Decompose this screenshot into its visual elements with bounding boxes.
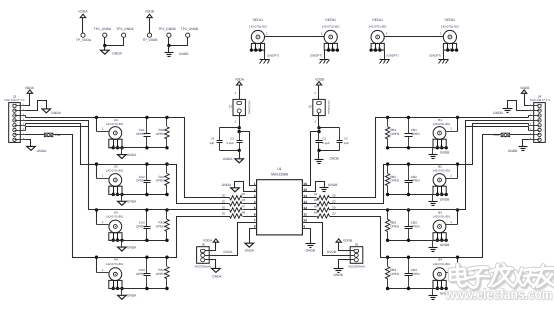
node junction xyxy=(386,162,389,165)
resistor R1 20 ohm xyxy=(309,197,317,199)
node junction xyxy=(436,146,439,149)
resistor RB2 xyxy=(387,165,389,174)
capacitor C4 xyxy=(219,128,221,141)
svg-text:GNDA: GNDA xyxy=(37,149,47,153)
wire J4 pin4 net xyxy=(528,120,530,122)
svg-text:VDDB: VDDB xyxy=(145,10,155,14)
pin 1 of B1 xyxy=(446,131,458,133)
wire xyxy=(529,115,540,117)
svg-text:20: 20 xyxy=(222,199,226,203)
node junction xyxy=(386,256,389,259)
wire xyxy=(432,289,434,296)
svg-text:20: 20 xyxy=(332,193,336,197)
wire J6 pin 3 xyxy=(339,260,355,269)
svg-text:J6: J6 xyxy=(355,243,359,247)
node junction xyxy=(386,146,389,149)
node junction xyxy=(167,44,170,47)
resistor R6 20 ohm xyxy=(230,202,242,206)
wire row A1 signal xyxy=(97,117,167,119)
svg-text:(GNDPT): (GNDPT) xyxy=(387,54,399,58)
svg-text:142-0701-801: 142-0701-801 xyxy=(106,262,124,266)
wire xyxy=(82,18,84,34)
node junction xyxy=(112,287,115,290)
svg-text:OPEN: OPEN xyxy=(390,132,399,136)
wire xyxy=(529,134,540,136)
wire xyxy=(529,139,540,141)
svg-text:OPEN: OPEN xyxy=(411,132,420,136)
ground GNDA row A4 xyxy=(118,295,127,299)
svg-text:11: 11 xyxy=(303,212,307,216)
wire bundle line 4 xyxy=(26,126,89,128)
node junction xyxy=(451,48,454,51)
wire xyxy=(239,151,241,159)
wire xyxy=(15,139,26,141)
wire xyxy=(168,46,170,53)
wire U1 pin 2 to ground xyxy=(235,182,251,192)
pin 1 of J4 xyxy=(538,104,541,107)
wire xyxy=(121,148,123,155)
wire xyxy=(168,38,170,46)
resistor R8 20 ohm xyxy=(230,214,242,218)
wire bundle line 1 to row A1 xyxy=(26,117,185,119)
svg-text:GNDA: GNDA xyxy=(212,274,222,278)
wire xyxy=(169,38,188,46)
wire xyxy=(96,165,98,179)
node junction xyxy=(259,48,262,51)
node junction xyxy=(116,146,119,149)
wire row B4 to U1 pin 11 xyxy=(330,217,388,258)
pin 1 of B4 xyxy=(446,272,458,274)
pin 8 of J4 xyxy=(538,138,541,141)
node junction xyxy=(456,256,459,259)
wire row A3 to U1 pin 5 xyxy=(167,209,230,211)
svg-text:6: 6 xyxy=(254,212,256,216)
wire xyxy=(220,127,240,129)
wire xyxy=(239,85,241,102)
svg-text:GNDA: GNDA xyxy=(222,183,232,187)
ground pins of A2 xyxy=(109,186,122,194)
svg-text:(GNDPT): (GNDPT) xyxy=(267,54,279,58)
svg-text:TP_VDDB: TP_VDDB xyxy=(142,38,158,42)
ground pins of REFB2 xyxy=(443,43,456,50)
wire xyxy=(121,289,123,296)
wire bundle line 1 to row B1 xyxy=(376,117,529,119)
node junction xyxy=(407,208,410,211)
wire xyxy=(529,130,540,132)
wire bundle line 2 xyxy=(26,121,97,210)
svg-text:OPEN: OPEN xyxy=(156,225,165,229)
pin 8 of J3 xyxy=(13,138,16,141)
svg-text:J1: J1 xyxy=(229,104,233,108)
wire row B3 ground bus xyxy=(388,240,447,242)
test point TP_VDDA xyxy=(81,33,85,37)
wire xyxy=(529,125,540,127)
node junction xyxy=(386,287,389,290)
wire xyxy=(457,258,459,273)
ground GNDB at U1 pin 15 xyxy=(320,187,329,189)
svg-text:20: 20 xyxy=(222,193,226,197)
svg-text:0.1µF: 0.1µF xyxy=(227,141,235,145)
svg-text:VDDB: VDDB xyxy=(343,238,352,242)
svg-text:OPEN: OPEN xyxy=(136,179,145,183)
pin 12 of U1 xyxy=(303,209,309,211)
ground GNDB at J6 pin 3 xyxy=(334,268,344,270)
svg-text:REFB1: REFB1 xyxy=(325,18,336,22)
svg-text:PEC02SAAN: PEC02SAAN xyxy=(247,100,250,114)
pin 1 of REFB2 xyxy=(438,36,444,38)
node junction xyxy=(165,146,168,149)
svg-text:GNDB: GNDB xyxy=(493,111,503,115)
wire J5 pin 3 xyxy=(205,260,216,269)
wire J6 pin 1 xyxy=(339,243,355,251)
ground GNDB below C2 xyxy=(315,159,324,161)
wire row A1 to U1 pin 3 xyxy=(167,118,230,198)
node junction xyxy=(95,208,98,211)
svg-text:1: 1 xyxy=(266,31,268,35)
svg-text:PEC03SAAN: PEC03SAAN xyxy=(348,265,365,269)
node junction xyxy=(386,208,389,211)
wire J3 pin7 via FB1 down to row A4 xyxy=(26,134,45,136)
wire xyxy=(457,118,459,132)
wire row A2 signal xyxy=(97,164,167,166)
wire J3 pin6 net xyxy=(25,127,27,131)
svg-text:R7: R7 xyxy=(242,204,246,208)
svg-text:OPEN: OPEN xyxy=(390,272,399,276)
wire xyxy=(324,51,326,60)
ground pins of A1 xyxy=(109,139,122,148)
pin 6 of J4 xyxy=(538,128,541,131)
node junction xyxy=(250,48,253,51)
wire J3 pin8 to ground xyxy=(26,140,31,147)
svg-text:20: 20 xyxy=(222,206,226,210)
node junction xyxy=(145,193,148,196)
node junction xyxy=(386,193,389,196)
ground GNDA row A3 xyxy=(118,247,127,251)
pin 3 of J4 xyxy=(538,114,541,117)
node junction xyxy=(165,208,168,211)
wire xyxy=(15,120,26,122)
svg-text:5: 5 xyxy=(254,206,256,210)
svg-text:OPEN: OPEN xyxy=(390,225,399,229)
svg-text:GNDB: GNDB xyxy=(440,197,449,201)
wire row B1 to U1 pin 14 xyxy=(330,118,388,198)
wire xyxy=(432,195,434,202)
pin 7 of J3 xyxy=(13,133,16,136)
node junction xyxy=(165,239,168,242)
svg-text:OPEN: OPEN xyxy=(156,272,165,276)
svg-text:0.1µF: 0.1µF xyxy=(322,141,330,145)
pin 2 of U1 xyxy=(251,191,257,193)
node junction xyxy=(456,162,459,165)
svg-text:20: 20 xyxy=(332,212,336,216)
wire row B3 signal xyxy=(388,209,458,211)
ground GNDB xyxy=(165,52,174,54)
svg-text:R8: R8 xyxy=(242,210,246,214)
wire bundle line 3 right xyxy=(458,124,529,165)
svg-text:GNDB: GNDB xyxy=(440,243,449,247)
pin 2 of J4 xyxy=(538,109,541,112)
resistor RA1 xyxy=(166,118,168,127)
wire xyxy=(15,115,26,117)
svg-text:142-0701-801: 142-0701-801 xyxy=(322,24,340,28)
svg-text:REFA2: REFA2 xyxy=(372,18,383,22)
svg-text:REFA1: REFA1 xyxy=(253,18,264,22)
capacitor C5 xyxy=(339,128,341,141)
node junction xyxy=(455,48,458,51)
node junction xyxy=(120,193,123,196)
svg-text:U1: U1 xyxy=(277,167,281,171)
node junction xyxy=(112,193,115,196)
ground GNDA xyxy=(101,50,110,54)
svg-text:VDDA: VDDA xyxy=(25,86,35,90)
svg-text:1µF: 1µF xyxy=(344,141,349,145)
svg-text:R3: R3 xyxy=(314,204,318,208)
resistor RB3 xyxy=(387,210,389,220)
wire J5 pin 1 xyxy=(205,243,216,251)
svg-text:GNDB: GNDB xyxy=(508,149,518,153)
ground GNDA at J5 pin 3 xyxy=(212,268,221,272)
chassis ground of REFB1 xyxy=(320,59,329,61)
wire xyxy=(104,46,106,51)
wire xyxy=(239,113,241,128)
node junction xyxy=(238,130,241,133)
wire row A4 ground bus xyxy=(109,288,167,290)
wire row B2 to U1 pin 13 xyxy=(330,165,388,204)
node junction xyxy=(145,162,148,165)
ferrite bead FB2 on J4 pin 7 xyxy=(501,133,510,137)
node junction xyxy=(145,208,148,211)
wire xyxy=(443,51,445,60)
node junction xyxy=(120,146,123,149)
wire J4 pin7 via FB2 down to row B4 xyxy=(510,134,529,136)
ground GNDA row A1 xyxy=(118,155,127,159)
wire xyxy=(121,195,123,202)
node junction xyxy=(145,239,148,242)
pin 1 of REFB1 xyxy=(319,36,325,38)
wire xyxy=(15,125,26,127)
pin 2 of J3 xyxy=(13,109,16,112)
wire row B4 ground bus xyxy=(388,288,447,290)
wire to U1 pin 1 xyxy=(240,132,251,186)
wire J3 pin2 jog xyxy=(26,101,47,111)
node junction xyxy=(116,287,119,290)
resistor RA3 xyxy=(166,210,168,220)
node junction xyxy=(407,287,410,290)
node junction xyxy=(112,146,115,149)
capacitor C2 xyxy=(318,132,320,141)
node junction xyxy=(440,239,443,242)
ground GNDB row B3 xyxy=(429,247,438,249)
resistor R5 20 ohm xyxy=(230,196,242,200)
svg-text:OPEN: OPEN xyxy=(136,132,145,136)
svg-text:(GNDPT): (GNDPT) xyxy=(429,54,441,58)
wire J4 pin3 net xyxy=(528,116,530,118)
pin 1 of A2 xyxy=(97,178,109,180)
node junction xyxy=(336,48,339,51)
ground GNDA at J3 pin 2 xyxy=(42,109,51,113)
svg-text:12: 12 xyxy=(303,206,307,210)
capacitor CA2 xyxy=(146,165,148,181)
wire xyxy=(432,241,434,248)
wire U1 pin 9 to ground xyxy=(309,229,311,244)
wire xyxy=(529,120,540,122)
svg-text:VDDB: VDDB xyxy=(520,86,530,90)
svg-text:1: 1 xyxy=(386,31,388,35)
node junction xyxy=(254,48,257,51)
svg-text:GNDB: GNDB xyxy=(306,248,315,252)
svg-text:OPEN: OPEN xyxy=(136,225,145,229)
wire row B4 signal xyxy=(388,257,458,259)
wire J4 pin5 net xyxy=(528,124,530,126)
svg-text:13: 13 xyxy=(303,200,307,204)
wire xyxy=(96,210,98,225)
capacitor C1 xyxy=(239,132,241,141)
node junction xyxy=(386,116,389,119)
svg-text:14: 14 xyxy=(303,194,307,198)
svg-text:VDDA: VDDA xyxy=(235,78,245,82)
chassis ground of REFA2 xyxy=(380,59,390,61)
svg-text:J3: J3 xyxy=(13,95,17,99)
svg-text:TP2_GNDB: TP2_GNDB xyxy=(181,27,199,31)
wire xyxy=(529,105,539,107)
chassis ground of REFB2 xyxy=(439,59,449,61)
svg-text:(GNDPT): (GNDPT) xyxy=(310,54,322,58)
pin 8 of U1 xyxy=(251,228,257,230)
ground GNDB row B4 xyxy=(429,295,438,297)
node junction xyxy=(369,48,372,51)
svg-text:142-0701-801: 142-0701-801 xyxy=(106,169,124,173)
node junction xyxy=(440,146,443,149)
pin 1 of U1 xyxy=(251,185,257,187)
ground pins of B4 xyxy=(433,280,446,288)
wire J4 pin1 to VDDB xyxy=(525,94,529,106)
pin 14 of U1 xyxy=(303,197,309,199)
node junction xyxy=(386,239,389,242)
wire REFA2 to REFB2 xyxy=(390,36,438,38)
node junction xyxy=(165,193,168,196)
svg-text:PEC03SAAN: PEC03SAAN xyxy=(195,265,212,269)
wire J5 pin 2 xyxy=(205,255,214,257)
svg-text:1: 1 xyxy=(254,182,256,186)
pin 13 of U1 xyxy=(303,203,309,205)
node junction xyxy=(445,239,448,242)
node junction xyxy=(407,193,410,196)
svg-text:J4: J4 xyxy=(538,95,542,99)
ground GNDB row B2 xyxy=(429,201,438,203)
svg-text:GNDA: GNDA xyxy=(223,157,233,161)
node junction xyxy=(165,162,168,165)
svg-text:TSW-108-07-T-S: TSW-108-07-T-S xyxy=(530,99,551,102)
node junction xyxy=(456,116,459,119)
wire row A3 signal xyxy=(97,209,167,211)
svg-text:J5: J5 xyxy=(201,243,205,247)
svg-text:TSW-108-07-T-S: TSW-108-07-T-S xyxy=(4,99,25,102)
pin 4 of J4 xyxy=(538,119,541,122)
svg-text:2: 2 xyxy=(254,188,256,192)
svg-text:GNDA: GNDA xyxy=(51,111,61,115)
wire J3 pin5 net xyxy=(25,124,27,126)
node junction xyxy=(238,149,241,152)
wire xyxy=(104,38,106,46)
node junction xyxy=(145,116,148,119)
svg-text:15: 15 xyxy=(303,188,307,192)
node junction xyxy=(120,239,123,242)
wire xyxy=(384,51,386,60)
svg-text:142-0701-801: 142-0701-801 xyxy=(106,122,124,126)
node junction xyxy=(112,239,115,242)
svg-text:R2: R2 xyxy=(314,198,318,202)
node junction xyxy=(445,146,448,149)
svg-text:R4: R4 xyxy=(314,210,318,214)
node junction xyxy=(436,239,439,242)
wire U1 pin 8 to ground xyxy=(250,229,251,244)
wire xyxy=(17,105,26,107)
wire row A2 ground bus xyxy=(109,194,167,196)
wire row A1 ground bus xyxy=(109,147,167,149)
node junction xyxy=(440,193,443,196)
ground pins of REFA2 xyxy=(371,43,384,50)
ground pins of REFA1 xyxy=(251,43,264,50)
node junction xyxy=(436,287,439,290)
svg-text:1: 1 xyxy=(321,31,323,35)
chassis ground of REFA1 xyxy=(260,59,270,61)
resistor R3 20 ohm xyxy=(309,209,317,211)
pin 1 of REFA2 xyxy=(385,36,390,38)
pin 4 of U1 xyxy=(251,203,257,205)
svg-text:GNDA: GNDA xyxy=(127,200,137,204)
capacitor CA3 xyxy=(146,210,148,227)
pin 7 of U1 xyxy=(251,222,257,224)
wire xyxy=(318,151,320,160)
node junction xyxy=(446,48,449,51)
svg-text:OPEN: OPEN xyxy=(156,132,165,136)
node junction xyxy=(317,130,320,133)
wire xyxy=(319,150,340,152)
pin 3 of U1 xyxy=(251,197,257,199)
pin 1 of J3 xyxy=(13,104,16,107)
svg-text:VDDB: VDDB xyxy=(315,78,325,82)
wire xyxy=(457,210,459,225)
svg-text:R5: R5 xyxy=(242,192,246,196)
svg-text:VDDA: VDDA xyxy=(78,10,88,14)
pin 1 of B2 xyxy=(446,178,458,180)
wire xyxy=(318,113,320,128)
svg-text:10: 10 xyxy=(303,218,307,222)
wire row A4 signal xyxy=(97,257,167,259)
wire row B3 to U1 pin 12 xyxy=(330,209,466,211)
node junction xyxy=(407,239,410,242)
node junction xyxy=(317,149,320,152)
capacitor CB3 xyxy=(408,210,410,227)
node junction xyxy=(95,256,98,259)
wire xyxy=(457,165,459,179)
svg-text:TP_VDDA: TP_VDDA xyxy=(76,38,92,42)
capacitor CB1 xyxy=(408,118,410,134)
wire xyxy=(318,85,320,102)
node junction xyxy=(445,287,448,290)
test point TP_VDDB xyxy=(147,33,151,37)
pin 1 of REFA1 xyxy=(265,36,271,38)
wire U1 pin 15 to ground xyxy=(309,182,325,192)
wire row B1 signal xyxy=(388,117,458,119)
pin 1 of A4 xyxy=(97,272,109,274)
wire xyxy=(96,258,98,273)
wire xyxy=(105,38,124,46)
svg-text:FB2: FB2 xyxy=(493,133,499,137)
node junction xyxy=(407,162,410,165)
pin 1 of B3 xyxy=(446,224,458,226)
wire xyxy=(15,134,26,136)
